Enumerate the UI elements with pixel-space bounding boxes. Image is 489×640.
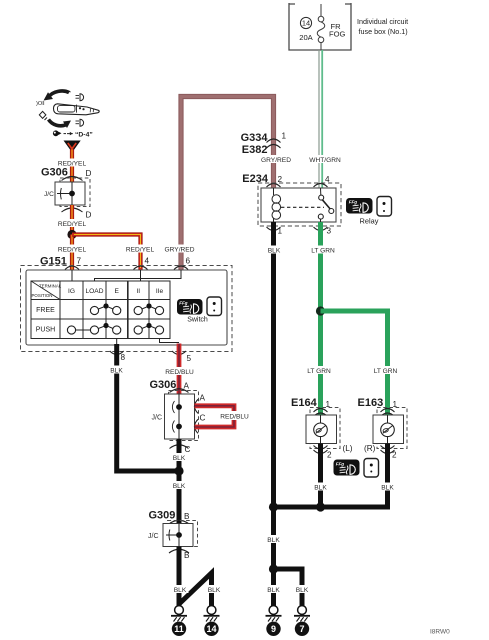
svg-text:BLK: BLK <box>267 537 280 544</box>
switch pins 8,5 labels <box>121 353 192 363</box>
G306 pin D chevron (bottom), label D <box>62 208 92 220</box>
wire BLK from G309 to ground 11 <box>177 547 182 607</box>
G306 right pin A chevron <box>195 399 199 413</box>
bus junction node (relay column) <box>269 502 278 511</box>
svg-text:2: 2 <box>392 451 397 460</box>
svg-text:E: E <box>114 288 119 295</box>
label BLK (above G309) <box>171 481 188 490</box>
relay contact <box>318 188 334 222</box>
svg-text:RED/YEL: RED/YEL <box>58 221 87 228</box>
lamps connector face icon <box>364 459 379 478</box>
switch contact table grid <box>31 281 170 339</box>
G151 pin 6 chevron <box>174 266 188 270</box>
svg-text:B: B <box>184 551 190 560</box>
routing: E column to pin 8 <box>116 339 118 347</box>
routing: IIe column to pin 5 <box>160 339 180 343</box>
label BLK (bus drop) <box>265 535 282 544</box>
svg-text:8: 8 <box>121 353 126 362</box>
svg-text:BLK: BLK <box>267 587 280 594</box>
svg-text:FFg: FFg <box>349 199 357 204</box>
G309 pin B chevron (bottom), label B <box>169 549 190 560</box>
label RED/BLU (loop) <box>218 411 252 421</box>
switch pin 5 chevron <box>172 351 186 355</box>
wire RED/YEL from G306 down to junction <box>70 205 74 235</box>
svg-text:LOAD: LOAD <box>86 288 104 295</box>
svg-text:FFg: FFg <box>179 300 187 305</box>
svg-text:7: 7 <box>299 624 304 634</box>
PUSH row contacts II-IIe <box>134 326 164 335</box>
G306 lower right pins A,C labels <box>200 394 206 423</box>
relay E234 dashed boundary <box>258 183 341 226</box>
svg-text:FREE: FREE <box>36 307 55 314</box>
svg-text:(L): (L) <box>343 444 353 453</box>
ground symbol 14 <box>204 606 220 622</box>
label BLK (G306 C) <box>171 453 188 462</box>
G309 dashed boundary <box>168 521 198 547</box>
svg-text:(R): (R) <box>364 444 376 453</box>
switch dashed boundary <box>21 266 233 352</box>
svg-text:POSITION: POSITION <box>32 293 53 298</box>
ground point number 11 <box>172 622 186 636</box>
fuse F14 symbol <box>317 16 325 50</box>
ground symbol 9 <box>266 606 282 622</box>
svg-text:RED/BLU: RED/BLU <box>220 414 249 421</box>
svg-text:TERMINAL: TERMINAL <box>39 284 62 289</box>
svg-text:GRY/RED: GRY/RED <box>165 247 195 254</box>
relay coil-contact dashed link <box>281 206 324 208</box>
svg-text:I8RW0: I8RW0 <box>430 629 450 636</box>
svg-text:J/C: J/C <box>152 415 163 422</box>
label BLK (relay pin1) <box>266 246 282 255</box>
G306 lower pin C chevron (bottom), label C <box>170 445 191 454</box>
wire stub above fuse <box>320 4 322 16</box>
lower BLK junction node <box>269 564 278 573</box>
relay fog-lamp icon <box>346 198 373 214</box>
G151 pin 4 chevron <box>134 266 148 270</box>
wire BLK to ground 9 <box>271 569 276 606</box>
E163 dashed boundary <box>377 408 407 449</box>
switch pin 8 chevron <box>110 351 124 355</box>
wire BLK branch to ground 7 <box>274 569 303 606</box>
svg-text:GRY/RED: GRY/RED <box>261 157 291 164</box>
G306 lower pin A chevron <box>170 389 189 393</box>
lamps fog icon <box>334 460 360 476</box>
svg-text:IG: IG <box>68 288 75 295</box>
connector G334/E382 labels <box>241 132 269 156</box>
shift indicator icon with arrow to "D-4" <box>53 130 93 138</box>
E164 lamp body <box>306 415 337 444</box>
svg-text:LT GRN: LT GRN <box>311 248 335 255</box>
svg-text:)O‖: )O‖ <box>36 101 45 107</box>
wire WHT/GRN from fuse to relay pin 4 <box>319 50 322 188</box>
ground point number 9 <box>266 622 280 636</box>
label RED/BLU (pin 5) <box>163 367 196 376</box>
wire BLK junction to G309 <box>177 471 182 525</box>
ignition key rotation arrow (upper) <box>44 91 71 101</box>
junction marks on LOAD/E and II/IIe boundaries <box>103 302 151 331</box>
relay E234 body <box>261 188 336 222</box>
LT GRN branch junction node <box>316 306 325 315</box>
svg-text:RED/YEL: RED/YEL <box>58 247 87 254</box>
G306 lower body (J/C) <box>165 394 195 439</box>
svg-text:BLK: BLK <box>268 248 281 255</box>
wire RED/YEL junction to switch pin 7 <box>70 235 74 271</box>
svg-text:BLK: BLK <box>208 587 221 594</box>
wire RED/YEL from funnel to G306 <box>70 150 74 184</box>
svg-text:5: 5 <box>187 354 192 363</box>
svg-text:BLK: BLK <box>174 587 187 594</box>
relay coil <box>272 188 281 222</box>
PUSH row contacts IG-LOAD-E <box>67 326 120 335</box>
svg-text:6: 6 <box>186 257 191 266</box>
ground symbol 7 <box>294 606 310 622</box>
svg-text:BLK: BLK <box>314 485 327 492</box>
RED/YEL junction node <box>67 230 76 239</box>
G309 body (J/C) <box>163 524 193 547</box>
label BLK (E163) <box>379 483 396 492</box>
G306 dashed boundary <box>60 178 90 207</box>
switch G151 label and pins 7,4,6 <box>40 256 191 268</box>
headlight icon (upper) <box>76 94 84 101</box>
routing: pin 7 to IG column <box>71 270 73 281</box>
connector G334/E382 chevrons on wire, pin 1 <box>267 132 287 149</box>
wire LT GRN branch to E163 <box>321 311 388 417</box>
wire BLK bus to lower junction <box>271 507 276 571</box>
relay pins 1,3 labels <box>278 227 332 236</box>
label WHT/GRN <box>306 155 344 164</box>
svg-text:IIe: IIe <box>156 288 164 295</box>
fog lamp E163 label, pin 1 <box>358 397 398 409</box>
key-off icon <box>36 101 45 107</box>
svg-text:1: 1 <box>282 132 287 141</box>
fuse name FR FOG <box>329 22 346 39</box>
fuse rating 20A <box>299 33 313 42</box>
diamond icon <box>39 111 46 118</box>
svg-text:E234: E234 <box>242 173 269 185</box>
wire BLK from G306 C to junction <box>177 439 182 471</box>
wire GRY/RED from switch pin 6 up and over to relay pin 2 <box>181 97 274 271</box>
svg-text:D: D <box>86 169 92 178</box>
wire collector funnel <box>64 141 81 152</box>
label BLK (pin 8) <box>108 366 125 375</box>
svg-text:BLK: BLK <box>381 485 394 492</box>
svg-text:Relay: Relay <box>360 217 379 226</box>
junction connector G306 label, pin D <box>41 167 92 179</box>
label BLK (ground 11) <box>172 585 189 594</box>
routing: pin 4 to II column <box>140 270 142 281</box>
svg-text:7: 7 <box>77 257 82 266</box>
svg-text:C: C <box>200 414 206 423</box>
relay connector face icon <box>377 197 392 217</box>
G306 right pin C chevron <box>195 419 199 433</box>
table header diagonal TERMINAL/POSITION <box>31 281 62 300</box>
label J/C (G306 lower) <box>152 415 163 422</box>
svg-text:A: A <box>184 382 190 391</box>
label RED/YEL (pin 4) <box>124 245 156 254</box>
FREE row contacts LOAD-E <box>90 306 120 315</box>
svg-text:BLK: BLK <box>173 483 186 490</box>
junction connector G306 (lower) label, pin A <box>150 379 190 391</box>
ground point number 14 <box>204 622 218 636</box>
wire BLK ground bus <box>271 505 388 510</box>
svg-text:4: 4 <box>145 257 150 266</box>
label RED/YEL (pin 7) <box>56 245 88 254</box>
svg-text:J/C: J/C <box>148 533 159 540</box>
switch connector face icon <box>207 297 222 316</box>
junction connector G309 label, pin B <box>149 510 191 522</box>
ground point number 7 <box>295 622 309 636</box>
G306 body (J/C) <box>55 182 85 205</box>
wire LT GRN from relay pin 3 <box>318 222 323 417</box>
wire BLK diagonal branch to ground 14 <box>179 573 212 606</box>
svg-text:RED/YEL: RED/YEL <box>126 247 155 254</box>
bus junction node (E164 column) <box>316 502 325 511</box>
svg-text:J/C: J/C <box>44 191 54 198</box>
G306 lower dashed boundary <box>169 391 199 441</box>
svg-text:RED/BLU: RED/BLU <box>165 369 194 376</box>
label BLK (ground 14) <box>206 585 223 594</box>
svg-text:G306: G306 <box>150 379 177 391</box>
label LT GRN (relay pin3) <box>310 246 336 255</box>
label J/C (G306 top) <box>44 191 54 198</box>
individual circuit fuse box No.1 outline <box>289 3 351 50</box>
wire BLK from relay pin 1 down to bus <box>271 222 276 509</box>
svg-text:14: 14 <box>206 624 216 634</box>
svg-text:WHT/GRN: WHT/GRN <box>309 157 341 164</box>
relay E234 pin 2 chevron <box>267 184 281 188</box>
G309 pin B chevron (top) <box>169 520 189 524</box>
wire BLK from E164 to bus <box>318 444 323 510</box>
drawing code I8RW0 <box>430 629 450 636</box>
svg-text:2: 2 <box>327 451 332 460</box>
relay pin 1 chevron <box>267 227 281 231</box>
label LT GRN (E163) <box>373 366 399 375</box>
svg-text:11: 11 <box>174 624 184 634</box>
svg-text:“D-4”: “D-4” <box>75 132 93 139</box>
svg-text:G306: G306 <box>41 167 68 179</box>
wire RED/YEL branch to switch pin 4 <box>72 235 141 271</box>
svg-text:14: 14 <box>302 19 310 28</box>
relay pin 3 chevron <box>314 227 328 231</box>
E164 dashed boundary <box>310 408 340 449</box>
svg-text:C: C <box>185 445 191 454</box>
label BLK (ground 9) <box>265 585 282 594</box>
table column headers IG LOAD E II IIe <box>68 288 163 295</box>
E163 pin 2 chevrons, label 2, (R) <box>364 444 397 460</box>
label Switch <box>187 317 208 324</box>
svg-text:Switch: Switch <box>187 317 208 324</box>
caption: Individual circuit fuse box (No.1) <box>357 17 408 36</box>
BLK junction node <box>174 466 183 475</box>
svg-text:9: 9 <box>271 624 276 634</box>
label BLK (E164) <box>312 483 329 492</box>
relay E234 name and pins 2,4 <box>242 173 330 185</box>
wire RED/BLU from switch pin 5 to G306 <box>177 344 182 397</box>
G306 pin D chevron (top) <box>62 177 83 181</box>
svg-text:FFg: FFg <box>336 461 344 466</box>
svg-text:A: A <box>200 394 206 403</box>
svg-text:B: B <box>184 512 190 521</box>
wire RED/BLU loop (out A, back C) <box>195 406 235 427</box>
svg-text:D: D <box>86 211 92 220</box>
table row labels FREE PUSH <box>36 307 55 334</box>
svg-text:LT GRN: LT GRN <box>374 368 398 375</box>
svg-text:PUSH: PUSH <box>36 327 55 334</box>
ground symbol 11 <box>171 606 187 622</box>
svg-text:20A: 20A <box>299 33 313 42</box>
wire BLK from switch pin 8 to junction <box>117 344 179 471</box>
svg-text:BLK: BLK <box>173 455 186 462</box>
stalk rotation arrow (lower) <box>45 118 72 129</box>
label RED/YEL (above G306) <box>56 159 88 168</box>
svg-text:Individual circuit: Individual circuit <box>357 17 408 26</box>
label GRY/RED (pin 6) <box>162 245 197 254</box>
svg-text:FOG: FOG <box>329 30 346 39</box>
E163 lamp body <box>373 415 404 444</box>
routing: pin 6 to LOAD column <box>95 270 182 281</box>
E163 pin 1 chevrons <box>381 409 395 417</box>
svg-text:G334: G334 <box>241 132 269 144</box>
svg-text:G309: G309 <box>149 510 176 522</box>
wire BLK from E163 to bus <box>385 444 390 510</box>
E164 pin 2 chevrons, label 2, (L) <box>314 444 353 460</box>
label BLK (ground 7) <box>294 585 311 594</box>
label GRY/RED (upper) <box>258 155 295 164</box>
svg-text:fuse box (No.1): fuse box (No.1) <box>359 27 408 36</box>
fog lamp E164 label, pin 1 <box>291 397 331 409</box>
svg-text:II: II <box>136 288 140 295</box>
combination switch stalk <box>54 104 100 115</box>
svg-text:LT GRN: LT GRN <box>307 368 331 375</box>
label RED/YEL (below G306) <box>56 219 88 228</box>
switch outer body <box>26 270 227 345</box>
headlight icon (lower) <box>76 119 84 126</box>
svg-text:BLK: BLK <box>110 368 123 375</box>
switch fog-lamp icon <box>177 299 203 315</box>
fuse number 14 <box>300 17 311 28</box>
relay E234 pin 4 chevron <box>314 184 328 188</box>
label Relay <box>360 217 379 226</box>
E164 pin 1 chevrons <box>314 409 328 417</box>
label LT GRN (E164) <box>306 366 332 375</box>
FREE row contacts II-IIe <box>134 306 164 315</box>
G151 pin 7 chevron <box>65 266 79 270</box>
svg-text:BLK: BLK <box>296 587 309 594</box>
label J/C (G309) <box>148 533 159 540</box>
svg-text:E382: E382 <box>242 144 268 156</box>
